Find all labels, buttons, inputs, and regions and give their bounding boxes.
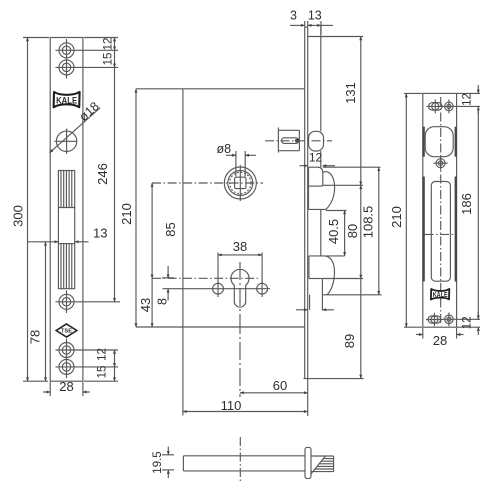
cylinder fixing hole right [257,281,268,298]
deadbolt upper position side view [309,167,335,209]
svg-text:12: 12 [462,93,474,106]
case depth line side view [321,25,323,310]
strike screw top right [443,100,481,114]
dim d8 hub square [217,142,257,177]
strike screw slot bottom left [426,313,443,326]
svg-text:TSE: TSE [61,329,72,335]
svg-text:300: 300 [11,205,26,227]
leader line d18 [50,99,102,153]
svg-text:186: 186 [459,193,474,215]
hub hole circle d18 [55,129,78,154]
dim 78 [28,242,46,381]
dim 13 latch width [27,226,107,242]
screw hole bottom 2 [56,356,119,379]
deadbolt lower position side view [309,256,345,310]
dim 28 strike [416,328,464,348]
dim 28 faceplate [43,379,90,396]
svg-text:28: 28 [59,379,73,394]
extension lines right side [308,37,382,295]
svg-text:246: 246 [95,163,110,185]
svg-text:85: 85 [163,222,178,236]
latch bolt side view [309,131,324,151]
strike KALE badge [431,289,449,299]
strike box thick edges [424,127,456,282]
svg-text:15: 15 [97,366,109,379]
dim 40.5 [326,211,345,256]
dim 210 body [119,89,136,327]
dim 89 [342,279,361,379]
dim 110 [183,327,308,416]
dim 80 [345,185,361,278]
dim 12 strike bottom [457,312,480,335]
follower hub [152,165,263,201]
dim chain right of faceplate 12 15 246 12 15 [84,38,118,382]
svg-text:12: 12 [462,316,474,329]
dim 60 backset [240,316,308,416]
bottom view forend bar [305,447,311,478]
svg-text:210: 210 [119,203,134,225]
dim 12 latch protrusion [300,151,336,166]
svg-text:131: 131 [343,82,358,104]
svg-text:13: 13 [308,9,322,23]
svg-text:40.5: 40.5 [326,219,341,244]
svg-text:KALE: KALE [56,96,77,107]
svg-text:210: 210 [389,206,404,228]
svg-text:KALE: KALE [433,292,448,299]
strike screw slot top left [427,100,445,114]
strike plate outline [423,93,457,327]
dim 210 strike [389,93,422,327]
dim 3 and 13 top [290,9,333,35]
screw hole mid [56,291,121,314]
dim 19.5 [152,447,174,479]
cylinder fixing hole left [213,281,224,298]
latch mechanism front view [278,127,299,152]
dim 12 strike top [457,85,480,114]
faceplate front view outline [50,38,83,382]
screw hole bottom 1 [56,339,119,362]
euro cylinder hole [152,262,258,316]
dim 108.5 [361,167,379,295]
dim 131 [343,37,361,186]
svg-text:ø8: ø8 [217,142,232,156]
svg-text:110: 110 [221,398,242,413]
dim 85 and 43 [138,183,178,327]
strike deadbolt opening [431,182,450,282]
bottom view case [183,456,305,471]
fixing holes centerline [163,288,271,290]
bottom view centerline [239,437,241,481]
svg-text:38: 38 [233,239,247,254]
svg-text:108.5: 108.5 [361,206,376,239]
svg-text:28: 28 [433,333,447,348]
svg-text:89: 89 [342,334,357,348]
svg-text:19.5: 19.5 [152,451,164,473]
forend side view plate [304,27,364,378]
svg-text:8: 8 [156,298,170,305]
svg-text:12: 12 [97,348,109,361]
svg-text:78: 78 [28,330,43,344]
screw hole top 2 [56,56,119,79]
svg-text:43: 43 [138,298,153,312]
svg-text:3: 3 [290,9,297,23]
latch slot with hatch [58,171,74,289]
strike center screw [434,156,448,170]
svg-text:80: 80 [345,224,360,238]
svg-text:60: 60 [273,378,287,393]
TSE diamond logo [56,324,77,337]
dim unlabeled deadbolt throw [296,309,334,311]
screw hole top 1 [56,39,119,62]
svg-text:13: 13 [93,226,107,241]
dim 300 [11,38,50,382]
svg-text:12: 12 [103,38,115,51]
strike centerlines [425,97,455,323]
bottom view latch with hatch [311,456,334,475]
dim 8 cylinder offset [156,266,175,305]
strike screw bottom right [443,313,481,327]
latch centerline [265,140,332,142]
strike latch opening [425,127,453,157]
svg-text:15: 15 [103,53,115,66]
dim 38 [218,239,262,283]
svg-text:12: 12 [309,151,323,165]
KALE logo badge [54,92,80,107]
dim 186 strike [459,106,478,319]
lock body front view [136,89,305,327]
